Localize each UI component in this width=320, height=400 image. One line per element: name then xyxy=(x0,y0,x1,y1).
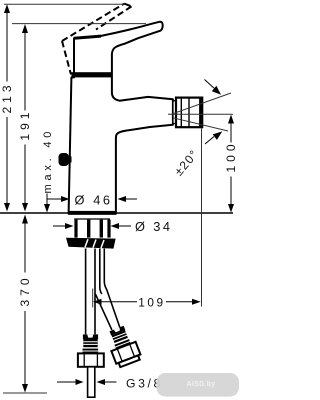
svg-text:100: 100 xyxy=(224,140,238,172)
svg-text:max. 40: max. 40 xyxy=(42,128,54,194)
svg-text:Ø 34: Ø 34 xyxy=(135,219,172,234)
svg-text:Ø 46: Ø 46 xyxy=(75,192,113,207)
svg-text:213: 213 xyxy=(0,81,14,113)
svg-text:109: 109 xyxy=(138,296,165,310)
svg-text:AiSD.by: AiSD.by xyxy=(187,381,216,388)
svg-text:191: 191 xyxy=(18,109,32,141)
svg-text:370: 370 xyxy=(18,274,32,306)
